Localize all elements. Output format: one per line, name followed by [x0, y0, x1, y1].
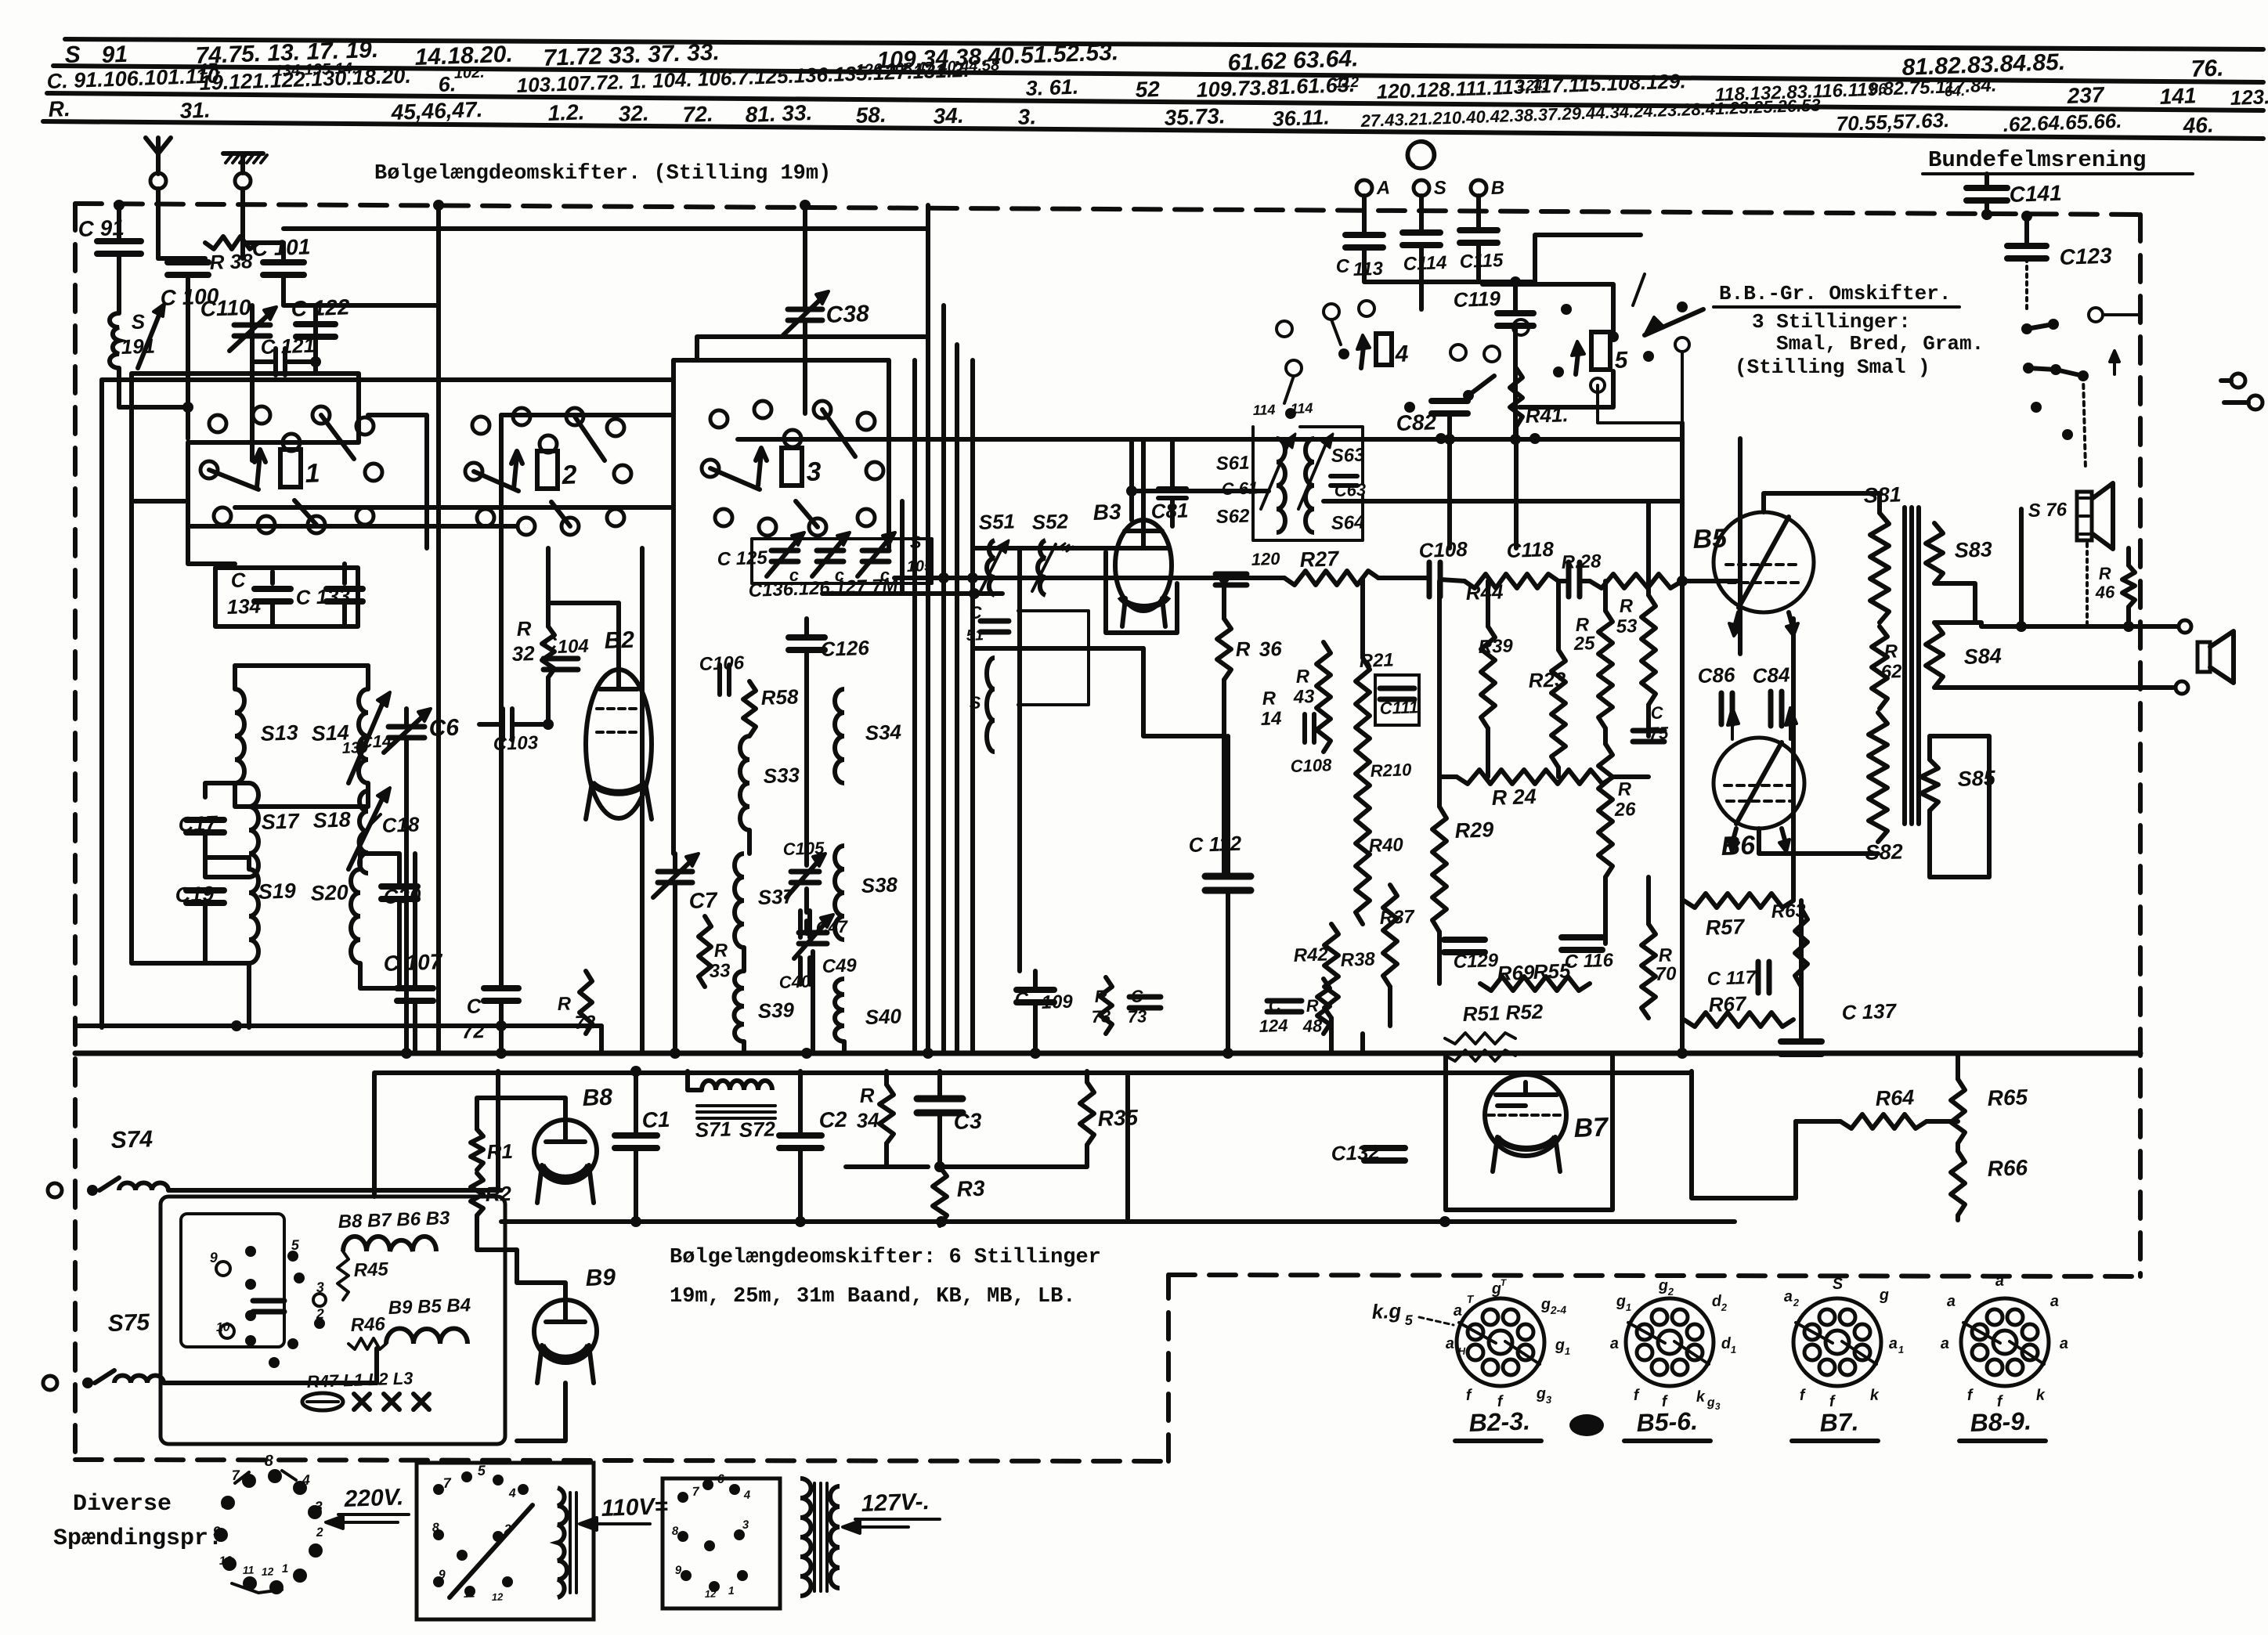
resistor R69	[1480, 977, 1590, 991]
svg-text:17.: 17.	[199, 60, 222, 78]
capacitor C47	[798, 911, 803, 937]
capacitor C112	[1205, 873, 1251, 880]
svg-text:11: 11	[243, 1563, 255, 1576]
svg-text:R57: R57	[1705, 915, 1746, 940]
wire R35 stems	[1085, 1071, 1089, 1082]
svg-text:S64: S64	[1331, 512, 1365, 534]
svg-text:72: 72	[574, 1012, 596, 1034]
gram terminals right	[2231, 374, 2245, 388]
svg-text:3. 61.: 3. 61.	[1025, 75, 1079, 100]
svg-text:1: 1	[728, 1584, 735, 1597]
capacitor C81	[1158, 486, 1186, 491]
resistor S85 winding	[1921, 760, 1938, 810]
svg-text:25: 25	[1573, 633, 1595, 655]
svg-text:(Stilling Smal ): (Stilling Smal )	[1735, 356, 1930, 379]
svg-text:5: 5	[291, 1237, 300, 1253]
wire C123 stem	[2024, 215, 2029, 246]
svg-text:S84: S84	[1963, 644, 2002, 669]
resistor R64	[1840, 1114, 1927, 1128]
svg-text:a: a	[1783, 1288, 1793, 1305]
resistor R43	[1316, 642, 1331, 752]
coil S191	[110, 313, 119, 368]
resistor R42	[1324, 924, 1338, 1018]
wire r64 net	[1796, 1119, 1840, 1124]
wire main bus y1345	[75, 1051, 2140, 1056]
svg-text:C 117: C 117	[1706, 967, 1757, 990]
resistor R55	[1528, 948, 1542, 1018]
wire bus y1560	[501, 1219, 1735, 1224]
capacitor C107	[397, 985, 433, 991]
wire C91 to coil	[117, 254, 121, 313]
wire s51 bus	[994, 595, 995, 619]
wire vertical x2148	[1680, 423, 1685, 1053]
pickup circle	[1407, 142, 1434, 168]
coil S52	[1038, 540, 1046, 595]
svg-text:S39: S39	[757, 998, 795, 1023]
svg-text:g: g	[1878, 1287, 1889, 1304]
wire top tie to bus	[436, 205, 441, 282]
capacitor C49	[799, 930, 827, 936]
capacitor C51	[981, 619, 1009, 624]
svg-text:11: 11	[464, 1587, 475, 1600]
svg-text:110V=: 110V=	[601, 1493, 668, 1522]
wire wafer1 leads	[188, 501, 235, 564]
wire S52 frame	[1018, 611, 1089, 705]
svg-text:12: 12	[262, 1565, 274, 1578]
capacitor C110 variable	[234, 323, 270, 328]
svg-text:2-4: 2-4	[1550, 1303, 1567, 1316]
coil S39	[734, 971, 744, 1042]
svg-text:C: C	[1650, 702, 1664, 723]
svg-text:g: g	[1535, 1385, 1546, 1403]
switch S75	[43, 1376, 57, 1390]
svg-text:73: 73	[1091, 1006, 1111, 1027]
capacitor C1	[615, 1132, 657, 1139]
svg-text:T: T	[1467, 1293, 1475, 1305]
svg-text:34: 34	[856, 1108, 879, 1132]
svg-text:C108: C108	[1290, 755, 1332, 776]
resistor chain2	[386, 1328, 468, 1344]
svg-text:C49: C49	[822, 955, 858, 977]
tube B7	[1485, 1074, 1566, 1156]
svg-text:R58: R58	[760, 684, 799, 709]
svg-text:141: 141	[2159, 83, 2197, 109]
switch wafer 5 contacts	[1450, 345, 1466, 360]
wire r21 r40	[1362, 728, 1363, 799]
capacitor C111	[1375, 675, 1419, 725]
wire block outline left	[132, 501, 205, 963]
svg-text:124.: 124.	[1517, 78, 1547, 95]
wire R34 stems	[884, 1071, 889, 1085]
svg-text:72.: 72.	[682, 102, 713, 127]
svg-text:g: g	[1706, 1396, 1716, 1410]
lightning arrow	[2113, 352, 2116, 374]
svg-text:36.11.: 36.11.	[1272, 105, 1330, 131]
switch wafer 2	[472, 417, 489, 434]
wire C114 join	[1421, 280, 1479, 284]
svg-text:114: 114	[1252, 402, 1275, 418]
speaker S76	[2077, 492, 2092, 540]
wire y738 r27	[894, 576, 1284, 580]
resistor R46r	[2122, 565, 2135, 607]
capacitor C84	[1768, 691, 1774, 726]
svg-text:C110: C110	[200, 295, 251, 321]
svg-text:S 76: S 76	[2028, 499, 2068, 522]
svg-text:B8 B7 B6 B3: B8 B7 B6 B3	[338, 1208, 450, 1233]
socket B5-6.	[1626, 1298, 1714, 1386]
resistor R44pair	[1464, 574, 1558, 588]
svg-text:70.55,57.63.: 70.55,57.63.	[1836, 108, 1950, 135]
svg-text:C136.126.127 7M: C136.126.127 7M	[748, 575, 899, 601]
wire vertical x2222	[1738, 439, 1743, 581]
resistor R28	[1590, 574, 1682, 588]
svg-text:a: a	[1453, 1302, 1462, 1320]
svg-text:72: 72	[461, 1019, 485, 1043]
wire C6 stem	[404, 709, 409, 727]
wire S13 top	[233, 666, 237, 689]
resistor R65	[1951, 1079, 1965, 1143]
svg-text:73: 73	[1127, 1006, 1147, 1027]
coil2 core	[813, 1483, 816, 1591]
wire C132 stem	[1384, 1131, 1385, 1148]
svg-text:f: f	[1966, 1387, 1974, 1404]
wire B7 box	[1446, 1053, 1613, 1210]
svg-text:2: 2	[1793, 1297, 1800, 1309]
svg-text:112: 112	[1334, 74, 1359, 92]
svg-text:S: S	[1832, 1276, 1844, 1293]
svg-text:3: 3	[316, 1280, 324, 1295]
svg-text:R69: R69	[1497, 960, 1535, 985]
svg-text:k.g: k.g	[1371, 1299, 1402, 1323]
capacitor C116	[1562, 934, 1602, 940]
svg-text:S18: S18	[312, 807, 351, 832]
svg-text:6: 6	[221, 1498, 229, 1511]
socket diverse arcs	[235, 1472, 249, 1483]
svg-text:S20: S20	[310, 880, 349, 905]
wire bus x1205	[941, 305, 946, 1053]
svg-text:8: 8	[432, 1522, 440, 1535]
svg-text:104: 104	[557, 636, 589, 658]
coil S191 arrow	[138, 309, 161, 368]
resistor R58	[743, 681, 756, 736]
coil S20	[351, 869, 360, 963]
svg-text:B8-9.: B8-9.	[1970, 1406, 2031, 1437]
svg-text:1: 1	[1898, 1344, 1905, 1356]
svg-text:R40: R40	[1368, 834, 1404, 857]
wire S20 ties	[360, 854, 399, 886]
resistor R51	[1445, 1033, 1515, 1044]
svg-text:S74: S74	[110, 1126, 153, 1153]
svg-text:C86: C86	[1697, 662, 1735, 688]
resistor R25	[1598, 611, 1613, 728]
svg-text:3: 3	[806, 457, 822, 487]
capacitor C73	[1129, 995, 1161, 1000]
speaker terminal bottom	[2176, 681, 2188, 694]
coil2 left	[800, 1478, 811, 1596]
capacitor C117	[1756, 962, 1761, 993]
svg-text:B5-6.: B5-6.	[1636, 1406, 1698, 1437]
capacitor C40	[798, 958, 803, 984]
svg-text:C106: C106	[699, 652, 745, 675]
wire dashed border top	[75, 204, 2140, 215]
svg-text:C114: C114	[1403, 252, 1447, 275]
svg-text:C 125: C 125	[717, 547, 768, 570]
svg-text:S: S	[1433, 177, 1446, 199]
wire top rule line 1	[65, 39, 2263, 49]
capacitor C104	[544, 656, 578, 662]
wire dashed border bottom-right	[1168, 1275, 2140, 1276]
wire antenna down	[156, 189, 161, 258]
resistor R27	[1284, 571, 1378, 585]
wire C91 top	[117, 205, 121, 241]
svg-text:R: R	[1094, 986, 1107, 1006]
wire dashed border right	[2138, 215, 2143, 1276]
svg-text:C: C	[466, 994, 482, 1018]
switch contacts right	[2021, 323, 2032, 334]
wire b8 plate	[477, 1215, 565, 1300]
svg-text:46.: 46.	[2182, 113, 2214, 138]
wire S191 bottom	[119, 368, 188, 407]
resistor R35	[1080, 1082, 1094, 1145]
wire ground down	[240, 189, 245, 258]
svg-text:1: 1	[1731, 1344, 1737, 1356]
tube B6	[1714, 738, 1804, 829]
resistor R1	[471, 1129, 483, 1170]
svg-text:R: R	[1262, 688, 1277, 709]
wire B3 plate	[1129, 439, 1134, 520]
coil S51	[987, 540, 995, 595]
svg-text:R45: R45	[353, 1258, 389, 1281]
tube B9	[534, 1300, 597, 1363]
svg-text:2: 2	[504, 1523, 512, 1536]
svg-text:109.73.81.61.63.: 109.73.81.61.63.	[1196, 73, 1356, 102]
svg-text:64.: 64.	[1944, 83, 1965, 100]
svg-text:2: 2	[316, 1526, 324, 1540]
capacitor C113	[1345, 232, 1383, 238]
wire S33 chain	[747, 830, 752, 854]
svg-text:76.: 76.	[2190, 56, 2224, 82]
transformer core	[1902, 507, 1907, 824]
svg-text:C7: C7	[688, 888, 718, 913]
svg-text:6: 6	[717, 1473, 725, 1486]
capacitor C7 variable	[658, 869, 692, 875]
resistor R36	[1217, 619, 1231, 680]
capacitor C126	[789, 634, 825, 641]
svg-text:R66: R66	[1987, 1155, 2028, 1181]
scatter dots right	[2031, 402, 2042, 413]
svg-text:113: 113	[1352, 258, 1384, 280]
svg-text:R: R	[2098, 563, 2111, 583]
resistor chain1	[343, 1236, 436, 1251]
coil S37	[735, 854, 744, 948]
coil S33	[740, 736, 749, 830]
socket2 box	[663, 1478, 780, 1608]
svg-text:C81: C81	[1150, 498, 1189, 523]
svg-text:4: 4	[508, 1487, 517, 1500]
svg-text:S13: S13	[260, 720, 298, 745]
box inner	[181, 1214, 284, 1347]
svg-text:g: g	[1554, 1337, 1565, 1354]
coil S34	[835, 689, 844, 783]
wire bus x1185	[926, 205, 930, 1053]
svg-text:9: 9	[675, 1564, 683, 1577]
svg-text:a: a	[2050, 1293, 2059, 1310]
svg-text:a: a	[1995, 1273, 2004, 1290]
coil2 right	[830, 1486, 840, 1588]
capacitor C124	[1267, 998, 1302, 1004]
wire s83 leads	[1934, 486, 2005, 523]
svg-text:S83: S83	[1954, 537, 1992, 562]
svg-text:B9 B5 B4: B9 B5 B4	[388, 1294, 471, 1319]
svg-text:2: 2	[315, 1306, 324, 1322]
capacitor C108	[1427, 562, 1432, 597]
wire C134 C133 tie	[270, 572, 275, 583]
svg-text:C1: C1	[641, 1107, 670, 1132]
svg-text:g: g	[1540, 1296, 1551, 1313]
svg-text:R55: R55	[1533, 958, 1571, 984]
wire r44 to c118	[1558, 579, 1569, 583]
svg-text:2: 2	[1721, 1301, 1728, 1313]
svg-text:C129: C129	[1453, 950, 1499, 973]
coil S19	[249, 869, 258, 963]
resistor R47 oval	[302, 1393, 343, 1410]
svg-text:5: 5	[1404, 1312, 1414, 1328]
svg-text:102.: 102.	[453, 64, 485, 82]
svg-text:f: f	[1465, 1387, 1473, 1404]
capacitor C17	[186, 817, 224, 823]
svg-text:f: f	[1799, 1387, 1807, 1404]
resistor R48	[1317, 979, 1330, 1034]
svg-text:45,46,47.: 45,46,47.	[390, 97, 483, 125]
svg-text:86: 86	[1869, 81, 1887, 98]
svg-text:26: 26	[1613, 799, 1636, 821]
wire r39 r23 join	[1329, 1018, 1334, 1053]
svg-text:1: 1	[305, 458, 320, 489]
svg-text:B: B	[1490, 177, 1504, 199]
wire r36 stem	[1222, 578, 1226, 619]
svg-text:S17: S17	[261, 809, 301, 834]
svg-text:7: 7	[692, 1486, 701, 1499]
coil S13	[235, 689, 244, 783]
svg-text:S75: S75	[107, 1309, 151, 1337]
resistor R3	[933, 1167, 947, 1226]
svg-text:R44: R44	[1465, 579, 1504, 605]
svg-text:Spændingspr.: Spændingspr.	[53, 1525, 222, 1552]
svg-text:1.2.: 1.2.	[547, 99, 585, 125]
socket B8-9.	[1961, 1298, 2049, 1386]
capacitor C109	[1017, 987, 1054, 993]
terminal A	[1356, 180, 1372, 196]
svg-text:3: 3	[1715, 1401, 1721, 1412]
wire bus x1242	[970, 360, 975, 648]
socket B2-3.	[1457, 1298, 1544, 1386]
svg-text:R.28: R.28	[1561, 551, 1602, 573]
svg-text:Bundefelmsrening: Bundefelmsrening	[1928, 147, 2146, 173]
wire horiz y485	[132, 379, 674, 381]
capacitor C122	[296, 321, 335, 327]
capacitor C100	[168, 259, 208, 265]
ground symbol	[240, 153, 245, 173]
svg-text:35.73.: 35.73.	[1164, 103, 1226, 130]
wire C2 stem	[798, 1071, 803, 1135]
wire R41 stem	[1514, 427, 1519, 548]
wire rc net right	[1799, 901, 1804, 1042]
coil S17	[249, 783, 258, 877]
svg-text:S40: S40	[865, 1004, 902, 1029]
svg-text:C 121: C 121	[260, 334, 315, 359]
wire C101 tie	[281, 243, 286, 262]
wire r27 to c108	[1378, 576, 1429, 580]
svg-text:R: R	[713, 940, 728, 962]
svg-text:C 112: C 112	[1188, 832, 1242, 857]
svg-text:S34: S34	[865, 720, 902, 745]
svg-text:S63: S63	[1331, 444, 1365, 466]
wire frame C134 box	[215, 568, 358, 626]
svg-text:C: C	[543, 633, 558, 655]
svg-text:C84: C84	[1752, 662, 1790, 688]
svg-text:R: R	[1235, 637, 1251, 661]
svg-text:4: 4	[301, 1472, 310, 1488]
svg-text:58.: 58.	[855, 103, 887, 128]
svg-text:43: 43	[1292, 686, 1315, 708]
svg-text:3: 3	[314, 1499, 323, 1514]
svg-text:3: 3	[1546, 1394, 1553, 1406]
capacitor C19	[186, 887, 224, 894]
coil S63 S64	[1306, 439, 1314, 532]
svg-text:S81: S81	[1863, 482, 1901, 507]
svg-text:B8: B8	[582, 1085, 613, 1111]
trimmer row C136 C126 C127	[771, 548, 798, 554]
svg-text:B3: B3	[1092, 500, 1121, 525]
wire h y700 middle	[973, 547, 1168, 549]
wire S34 to S38	[843, 783, 845, 846]
resistor R67	[1684, 1013, 1793, 1027]
svg-text:4: 4	[743, 1489, 752, 1502]
svg-text:R42: R42	[1293, 944, 1329, 966]
svg-text:R64: R64	[1875, 1085, 1915, 1110]
resistor R21	[1356, 658, 1370, 924]
wire C17 ties	[205, 783, 249, 797]
wire b5 leads	[1764, 493, 1880, 513]
capacitor C63	[1331, 474, 1357, 478]
svg-text:34.: 34.	[933, 103, 964, 128]
wire r29 stem	[1437, 581, 1442, 807]
svg-text:62: 62	[1880, 661, 1902, 683]
svg-text:9: 9	[212, 1524, 221, 1540]
resistor S82 winding	[1869, 713, 1887, 842]
resistor R26	[1598, 744, 1613, 877]
resistor R62	[1872, 626, 1887, 709]
svg-text:B7.: B7.	[1819, 1407, 1859, 1437]
wire B3 frame	[1106, 552, 1177, 633]
svg-text:114: 114	[1290, 400, 1313, 417]
svg-text:C141: C141	[2009, 181, 2062, 207]
svg-text:R46: R46	[350, 1313, 386, 1336]
wire terminals down	[1362, 196, 1367, 235]
capacitor C134	[255, 586, 291, 592]
wire dashed border left	[73, 204, 78, 1460]
wire C1 stem	[634, 1071, 638, 1135]
wire horiz y292	[283, 226, 928, 231]
svg-text:a: a	[1946, 1293, 1956, 1310]
svg-text:R 24: R 24	[1491, 785, 1537, 810]
capacitor C114	[1403, 229, 1440, 236]
svg-text:61.62 63.64.: 61.62 63.64.	[1227, 45, 1359, 76]
svg-text:C123: C123	[2059, 244, 2112, 269]
svg-text:19m, 25m, 31m Baand, KB, MB, L: 19m, 25m, 31m Baand, KB, MB, LB.	[670, 1285, 1075, 1309]
wire C19 ties	[205, 857, 249, 869]
svg-text:220V.: 220V.	[343, 1484, 404, 1512]
